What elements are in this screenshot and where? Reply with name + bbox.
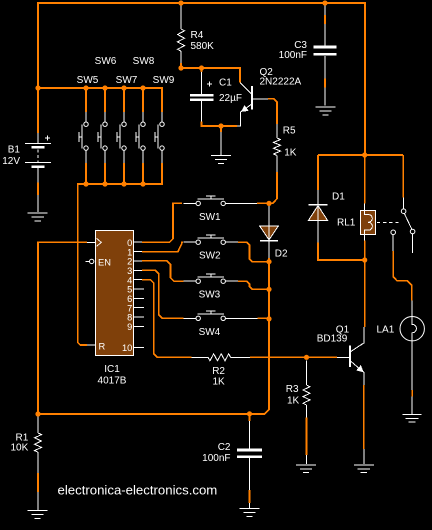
svg-text:D2: D2 (275, 249, 288, 260)
svg-text:R3: R3 (286, 384, 299, 395)
svg-text:100nF: 100nF (202, 453, 230, 464)
svg-text:SW2: SW2 (199, 251, 221, 262)
svg-text:LA1: LA1 (377, 324, 395, 335)
svg-text:9: 9 (127, 322, 132, 332)
svg-text:100nF: 100nF (279, 50, 307, 61)
svg-text:1K: 1K (287, 396, 300, 407)
svg-text:12V: 12V (2, 156, 20, 167)
svg-text:R: R (99, 342, 106, 352)
svg-text:10K: 10K (11, 442, 29, 453)
svg-text:C2: C2 (218, 442, 231, 453)
svg-text:electronica-electronics.com: electronica-electronics.com (58, 483, 218, 498)
svg-text:R5: R5 (283, 126, 296, 137)
svg-text:C1: C1 (219, 78, 232, 89)
svg-text:10: 10 (122, 343, 132, 353)
svg-text:1K: 1K (212, 377, 225, 388)
svg-text:B1: B1 (8, 144, 21, 155)
svg-text:1K: 1K (284, 148, 297, 159)
svg-text:22µF: 22µF (219, 93, 242, 104)
svg-text:R2: R2 (212, 366, 225, 377)
svg-text:SW1: SW1 (199, 212, 221, 223)
svg-text:SW7: SW7 (116, 75, 138, 86)
svg-text:BD139: BD139 (317, 333, 348, 344)
svg-text:SW5: SW5 (77, 75, 99, 86)
svg-text:R4: R4 (191, 30, 204, 41)
svg-text:4017B: 4017B (98, 376, 127, 387)
svg-text:SW3: SW3 (199, 290, 221, 301)
svg-text:SW9: SW9 (153, 75, 175, 86)
svg-text:580K: 580K (191, 41, 215, 52)
svg-text:SW6: SW6 (95, 56, 117, 67)
svg-text:2N2222A: 2N2222A (260, 77, 302, 88)
svg-text:RL1: RL1 (337, 218, 356, 229)
svg-text:D1: D1 (332, 191, 345, 202)
svg-text:SW4: SW4 (199, 327, 221, 338)
svg-text:IC1: IC1 (104, 364, 120, 375)
svg-text:EN: EN (98, 258, 111, 268)
svg-text:SW8: SW8 (133, 56, 155, 67)
